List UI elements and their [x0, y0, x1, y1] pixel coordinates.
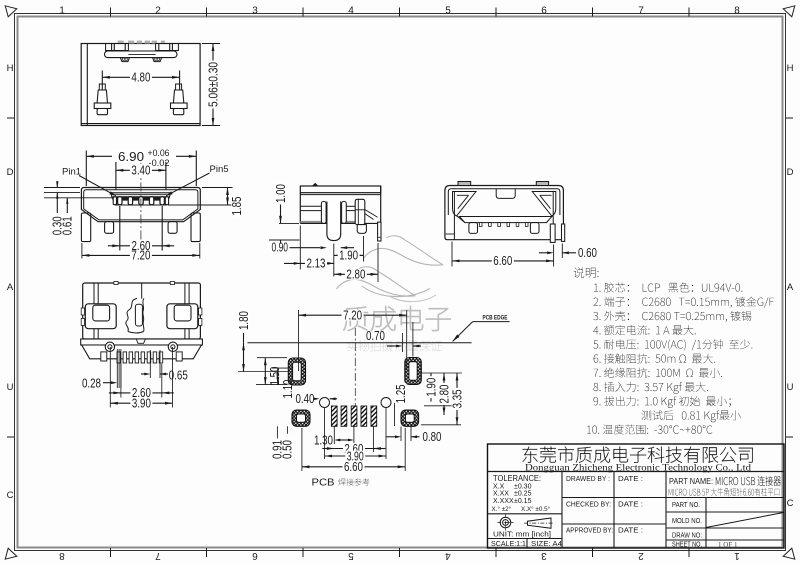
pcb dim 7.20: [299, 314, 407, 316]
pcb centerline: [354, 328, 356, 409]
svg-text:MOLD NO.: MOLD NO.: [672, 516, 702, 525]
view4 shell bottom: [300, 221, 355, 223]
svg-text:4: 4: [348, 6, 354, 17]
cone symbol: [528, 518, 552, 528]
view2 dim 2.60: [120, 245, 162, 247]
view4 ext line body left: [299, 226, 301, 270]
svg-text:X.° ±2°: X.° ±2°: [492, 505, 512, 513]
view5 interior diagonals: [457, 216, 465, 223]
view2 dim 7.20 ext lines: [81, 243, 83, 259]
svg-text:APPROVED BY:: APPROVED BY:: [566, 526, 613, 535]
svg-text:H: H: [787, 63, 794, 74]
svg-text:2: 2: [638, 550, 644, 561]
pcb pad bottom-right: [401, 410, 419, 426]
svg-text:U: U: [787, 382, 794, 393]
view5 left column lines: [453, 191, 455, 240]
view2 dim 7.20: [82, 254, 200, 256]
view5 left triangle pocket: [453, 192, 477, 217]
svg-text:Pin1: Pin1: [62, 167, 81, 178]
pcb dim 1.30: [333, 426, 335, 444]
pcb dim 2.60: [372, 426, 374, 452]
view3 flange band: [81, 339, 203, 345]
mold cell diagonal: [706, 513, 784, 528]
svg-text:C: C: [787, 498, 794, 509]
view5 right column lines: [552, 191, 554, 240]
svg-text:D: D: [787, 167, 794, 178]
view3 dim 0.28 lines: [116, 349, 118, 388]
pcb dim 1.10: [272, 367, 292, 369]
view5 top tab left: [458, 182, 471, 186]
frame zone numbers bottom (rotated): [59, 550, 65, 561]
view5 right triangle pocket: [532, 192, 556, 217]
svg-text:X.X° ±0.5°: X.X° ±0.5°: [521, 505, 551, 513]
view5 dim 6.60 ext lines: [451, 242, 453, 267]
svg-text:6.60: 6.60: [344, 460, 363, 474]
svg-text:4: 4: [445, 550, 451, 561]
svg-text:A: A: [787, 282, 794, 293]
view3 left cutout: [85, 304, 116, 329]
pcb dim 3.90: [324, 408, 326, 459]
view3 inner left lines: [93, 283, 95, 339]
view4 contact post 1: [321, 201, 326, 223]
view5 inner outline: [448, 189, 560, 215]
view3 latch slot: [135, 304, 142, 326]
pcb dim 6.60: [302, 466, 405, 468]
view3 side tabs: [101, 352, 107, 361]
view1 dim 5.06±0.30: [212, 44, 214, 126]
svg-text:X.X: X.X: [493, 484, 505, 491]
view2 dim 0.30: [56, 181, 58, 188]
note line 7. 绝缘阻: [594, 368, 723, 378]
view3 dim 2.60 lines: [120, 364, 122, 398]
svg-text:5: 5: [348, 550, 354, 561]
view5 outer body: [445, 186, 564, 240]
svg-text:SHEET NO.: SHEET NO.: [672, 540, 702, 549]
pcb pad top-right: [405, 358, 422, 385]
svg-text:PART NAME:: PART NAME:: [669, 477, 713, 486]
view2 contact pins: [118, 197, 122, 205]
view3 body outline: [83, 283, 201, 339]
view2 dim 3.40: [116, 169, 166, 171]
svg-text:+0.06: +0.06: [148, 148, 170, 158]
view3 dim 2.60: [121, 392, 162, 394]
view3 dim 3.90: [110, 402, 172, 404]
view1 dim 4.80: [102, 76, 179, 78]
svg-text:2.13: 2.13: [307, 257, 326, 271]
view3 band notch: [136, 339, 145, 343]
view2 slot end caps: [113, 197, 116, 205]
view1 body outline: [81, 44, 200, 126]
svg-text:0.28: 0.28: [82, 376, 101, 390]
svg-text:7.20: 7.20: [131, 249, 150, 263]
svg-text:1: 1: [734, 550, 740, 561]
svg-text:A: A: [7, 282, 14, 293]
view2 centerline: [140, 151, 142, 260]
pcb pad top-left: [288, 358, 305, 385]
pcb dim 1.90: [418, 372, 462, 374]
svg-text:2.80: 2.80: [437, 384, 451, 403]
view1 left post group: [106, 44, 129, 51]
svg-text:Dongguan Zhicheng Electronic: Dongguan Zhicheng Electronic Technology …: [525, 462, 752, 472]
view4 top plate: [300, 186, 380, 193]
view4 tongue lines: [300, 205, 321, 207]
note line 3. 外壳：: [593, 311, 751, 322]
svg-text:8: 8: [59, 550, 65, 561]
pcb dim 1.80: [238, 371, 288, 373]
svg-text:1.85: 1.85: [230, 196, 244, 215]
svg-text:TOLERANCE:: TOLERANCE:: [493, 474, 541, 483]
view3 dim 0.65: [141, 373, 145, 375]
notes header 说明: [574, 267, 599, 278]
view1 dim 5.06 extension lines: [202, 43, 220, 45]
view5 leg 1: [550, 224, 555, 242]
svg-text:X.XXX: X.XXX: [493, 498, 514, 505]
view3 inner right lines: [184, 283, 186, 339]
view4 body edges: [380, 186, 382, 225]
view3 top nubs: [114, 282, 118, 285]
view4 solder tab foot: [357, 225, 366, 234]
third angle projection symbol: [500, 517, 511, 528]
svg-text:1.30: 1.30: [314, 434, 333, 448]
title block company name: [523, 446, 753, 462]
note line 2. 端子：: [593, 297, 773, 308]
view3 hole left: [105, 342, 114, 351]
view4 dim 2.13: [284, 262, 300, 264]
svg-text:1.90: 1.90: [339, 249, 358, 263]
pcb dim 0.91 0.50: [270, 425, 292, 427]
pcb dim 1.25: [394, 403, 396, 426]
view2 dim 1.85: [227, 188, 229, 206]
svg-text:1.80: 1.80: [237, 311, 251, 330]
title block grid lines: [488, 471, 785, 473]
view2 left leg: [81, 213, 90, 242]
svg-text:3.35: 3.35: [450, 389, 464, 408]
svg-text:D: D: [7, 167, 14, 178]
svg-text:1.00: 1.00: [274, 184, 288, 203]
view2 slot opening: [112, 193, 170, 205]
note line 1. 胶芯：: [594, 282, 742, 292]
view4 dim 0.90: [271, 244, 289, 253]
view5 foot right: [530, 223, 539, 234]
view3 side notch ticks: [81, 308, 84, 315]
view1 right post group: [156, 44, 179, 51]
view4 ext line rear pin: [377, 243, 379, 282]
svg-text:Pin5: Pin5: [210, 164, 229, 175]
watermark logo swoosh upper: [387, 236, 405, 240]
view2 right foot: [168, 222, 177, 234]
svg-text:UNIT: mm [inch]: UNIT: mm [inch]: [493, 529, 551, 538]
pcb edge line: [248, 342, 472, 344]
svg-text:CHECKED BY:: CHECKED BY:: [566, 500, 611, 509]
note line 4. 额定电: [593, 325, 695, 335]
view2 dims 0.30 0.61 ext lines: [44, 187, 80, 189]
svg-text:6.60: 6.60: [493, 254, 512, 268]
svg-text:DATE :: DATE :: [618, 474, 643, 483]
svg-text:1.50: 1.50: [268, 366, 282, 385]
view5 top tab right: [536, 182, 548, 186]
pcb pad bottom-left: [292, 410, 310, 426]
svg-text:0.80: 0.80: [423, 430, 442, 444]
title block outer: [488, 444, 785, 548]
view2 dim 2.60 ext lines: [119, 206, 121, 251]
view4 ext line foot center: [363, 236, 365, 262]
svg-text:0.60: 0.60: [578, 246, 597, 260]
view1 left post tip: [120, 58, 129, 62]
svg-text:DRAW NO:: DRAW NO:: [672, 531, 702, 540]
view4 dim 1.00 ext lines: [279, 222, 299, 224]
frame zone ticks top: [110, 8, 112, 17]
view3 comb pins: [117, 352, 121, 363]
pcb dim 2.80: [424, 405, 458, 407]
note line 8. 插入力: [593, 382, 707, 394]
view5 pin ticks: [470, 223, 473, 227]
watermark text 质成电子: [343, 306, 450, 331]
view2 dim 6.90 +0.06 -0.02: [86, 155, 196, 157]
pcb edge callout: [453, 322, 473, 342]
svg-text:1 OF 1: 1 OF 1: [718, 541, 738, 549]
view4 contact post 2: [342, 201, 347, 223]
view2 dim 3.40 ext lines: [115, 162, 117, 190]
note line 6. 接触阻: [594, 353, 716, 363]
svg-text:X.XX: X.XX: [493, 491, 509, 498]
view5 foot left: [469, 223, 478, 234]
view5 center notch: [496, 189, 515, 199]
pcb hole right: [381, 398, 391, 408]
svg-text:H: H: [7, 63, 14, 74]
view3 hole right: [168, 342, 177, 351]
view1 top post bar: [105, 51, 178, 58]
view4 dim 1.00: [280, 200, 282, 224]
view3 spring latch wave: [126, 298, 137, 331]
svg-text:0.90: 0.90: [272, 240, 289, 254]
svg-text:6.90: 6.90: [118, 149, 144, 164]
svg-text:PCB EDGE: PCB EDGE: [483, 315, 508, 322]
view1 inner left line: [86, 44, 88, 126]
view1 right leg: [176, 84, 182, 90]
svg-text:DATE :: DATE :: [618, 526, 643, 535]
svg-text:3: 3: [252, 6, 258, 17]
svg-text:SIZE: A4: SIZE: A4: [531, 539, 562, 548]
note line 10. 温度: [587, 424, 712, 434]
view2 slot dark band: [113, 196, 169, 200]
view4 diagonal edges: [365, 210, 378, 218]
view4 solder tab block: [355, 199, 365, 224]
watermark logo bottom arc: [362, 286, 430, 297]
view2 right leg: [191, 213, 200, 242]
svg-text:0.40: 0.40: [296, 392, 315, 406]
note line 5. 耐电压: [593, 339, 752, 350]
view5 leg 2: [562, 224, 565, 241]
pcb dim 1.50 ext: [257, 357, 287, 359]
frame zone ticks bottom: [110, 548, 112, 557]
view1 pin tips above top edge: [118, 41, 124, 44]
view5 dim 6.60: [452, 260, 554, 262]
view4 dim 1.90: [334, 254, 364, 256]
view2 left foot: [105, 222, 114, 234]
svg-text:1.10: 1.10: [281, 379, 295, 398]
view2 inner shell: [84, 190, 198, 220]
frame zone ticks left: [7, 117, 14, 119]
view1 inner bottom line: [81, 123, 200, 125]
view1 dim 4.80 extension lines: [101, 71, 103, 91]
svg-text:DATE :: DATE :: [618, 500, 643, 509]
svg-text:0.70: 0.70: [366, 329, 385, 343]
pcb dim 1.50: [264, 358, 266, 385]
svg-text:3.40: 3.40: [131, 164, 150, 178]
view3 right cutout: [167, 304, 198, 329]
svg-text:±0.30: ±0.30: [514, 484, 532, 491]
view3 center line: [141, 283, 143, 299]
svg-text:1.25: 1.25: [394, 384, 408, 403]
note line 9. 拔出力: [594, 396, 731, 408]
view2 outer shell: [81, 188, 200, 222]
view4 dim 2.80: [334, 273, 378, 275]
view1 right post tip: [153, 58, 162, 62]
pcb dim 3.35: [421, 424, 461, 426]
svg-text:7: 7: [155, 550, 161, 561]
svg-text:7.20: 7.20: [343, 309, 362, 323]
svg-text:±0.15: ±0.15: [514, 498, 532, 505]
note line 测试后: [642, 410, 741, 422]
pcb dim 0.80: [400, 427, 402, 442]
svg-text:6: 6: [252, 550, 258, 561]
svg-text:0.65: 0.65: [169, 368, 188, 382]
svg-text:6: 6: [541, 6, 547, 17]
svg-text:3.90: 3.90: [132, 397, 151, 411]
svg-text:DRAWED BY :: DRAWED BY :: [566, 474, 610, 483]
view2 dim 0.61: [66, 181, 68, 188]
pcb solder pins hatched: [331, 406, 337, 426]
view2 slot inner line: [112, 194, 169, 196]
svg-text:±0.25: ±0.25: [514, 491, 532, 498]
pcb dim 6.60 ext: [301, 428, 303, 471]
view1 left leg: [99, 84, 105, 90]
svg-text:5: 5: [445, 6, 451, 17]
view1 top post bar middle line: [128, 53, 155, 55]
pcb hole left: [320, 398, 330, 408]
svg-text:1.90: 1.90: [424, 378, 438, 397]
view4 top triangle mark: [312, 183, 319, 186]
view2 dim 1.85 ext lines: [202, 187, 233, 189]
view5 middle band: [459, 217, 552, 223]
svg-text:PART NO.: PART NO.: [672, 500, 700, 509]
svg-text:2.80: 2.80: [346, 268, 365, 282]
watermark logo swoosh lower: [359, 267, 377, 271]
pcb dim 7.20 ext lines: [298, 310, 300, 371]
svg-text:PCB: PCB: [312, 477, 335, 489]
view4 ext line leg center: [333, 244, 335, 277]
frame corner arrows: [5, 6, 17, 17]
watermark text 实物拍摄 质量保证: [347, 340, 442, 351]
view3 dim 3.90 lines: [109, 347, 111, 408]
svg-text:8: 8: [734, 6, 740, 17]
view4 rear pin: [378, 222, 381, 241]
svg-text:0.50: 0.50: [281, 440, 295, 459]
view2 dim 6.90 ext lines: [85, 151, 87, 187]
svg-text:1: 1: [59, 6, 65, 17]
svg-text:0.61: 0.61: [61, 216, 75, 235]
svg-text:C: C: [7, 490, 14, 501]
view3 dim 0.65 lines: [149, 350, 151, 378]
svg-text:3: 3: [541, 550, 547, 561]
svg-text:U: U: [7, 382, 14, 393]
svg-text:7: 7: [638, 6, 644, 17]
view5 dim 0.60: [561, 244, 563, 259]
view4 center through-hole leg: [327, 202, 341, 241]
view3 bottom taper: [82, 345, 202, 359]
svg-text:5.06±0.30: 5.06±0.30: [206, 62, 220, 107]
svg-text:4.80: 4.80: [131, 71, 150, 85]
svg-text:2: 2: [155, 6, 161, 17]
svg-text:SCALE:1:1: SCALE:1:1: [491, 539, 526, 548]
